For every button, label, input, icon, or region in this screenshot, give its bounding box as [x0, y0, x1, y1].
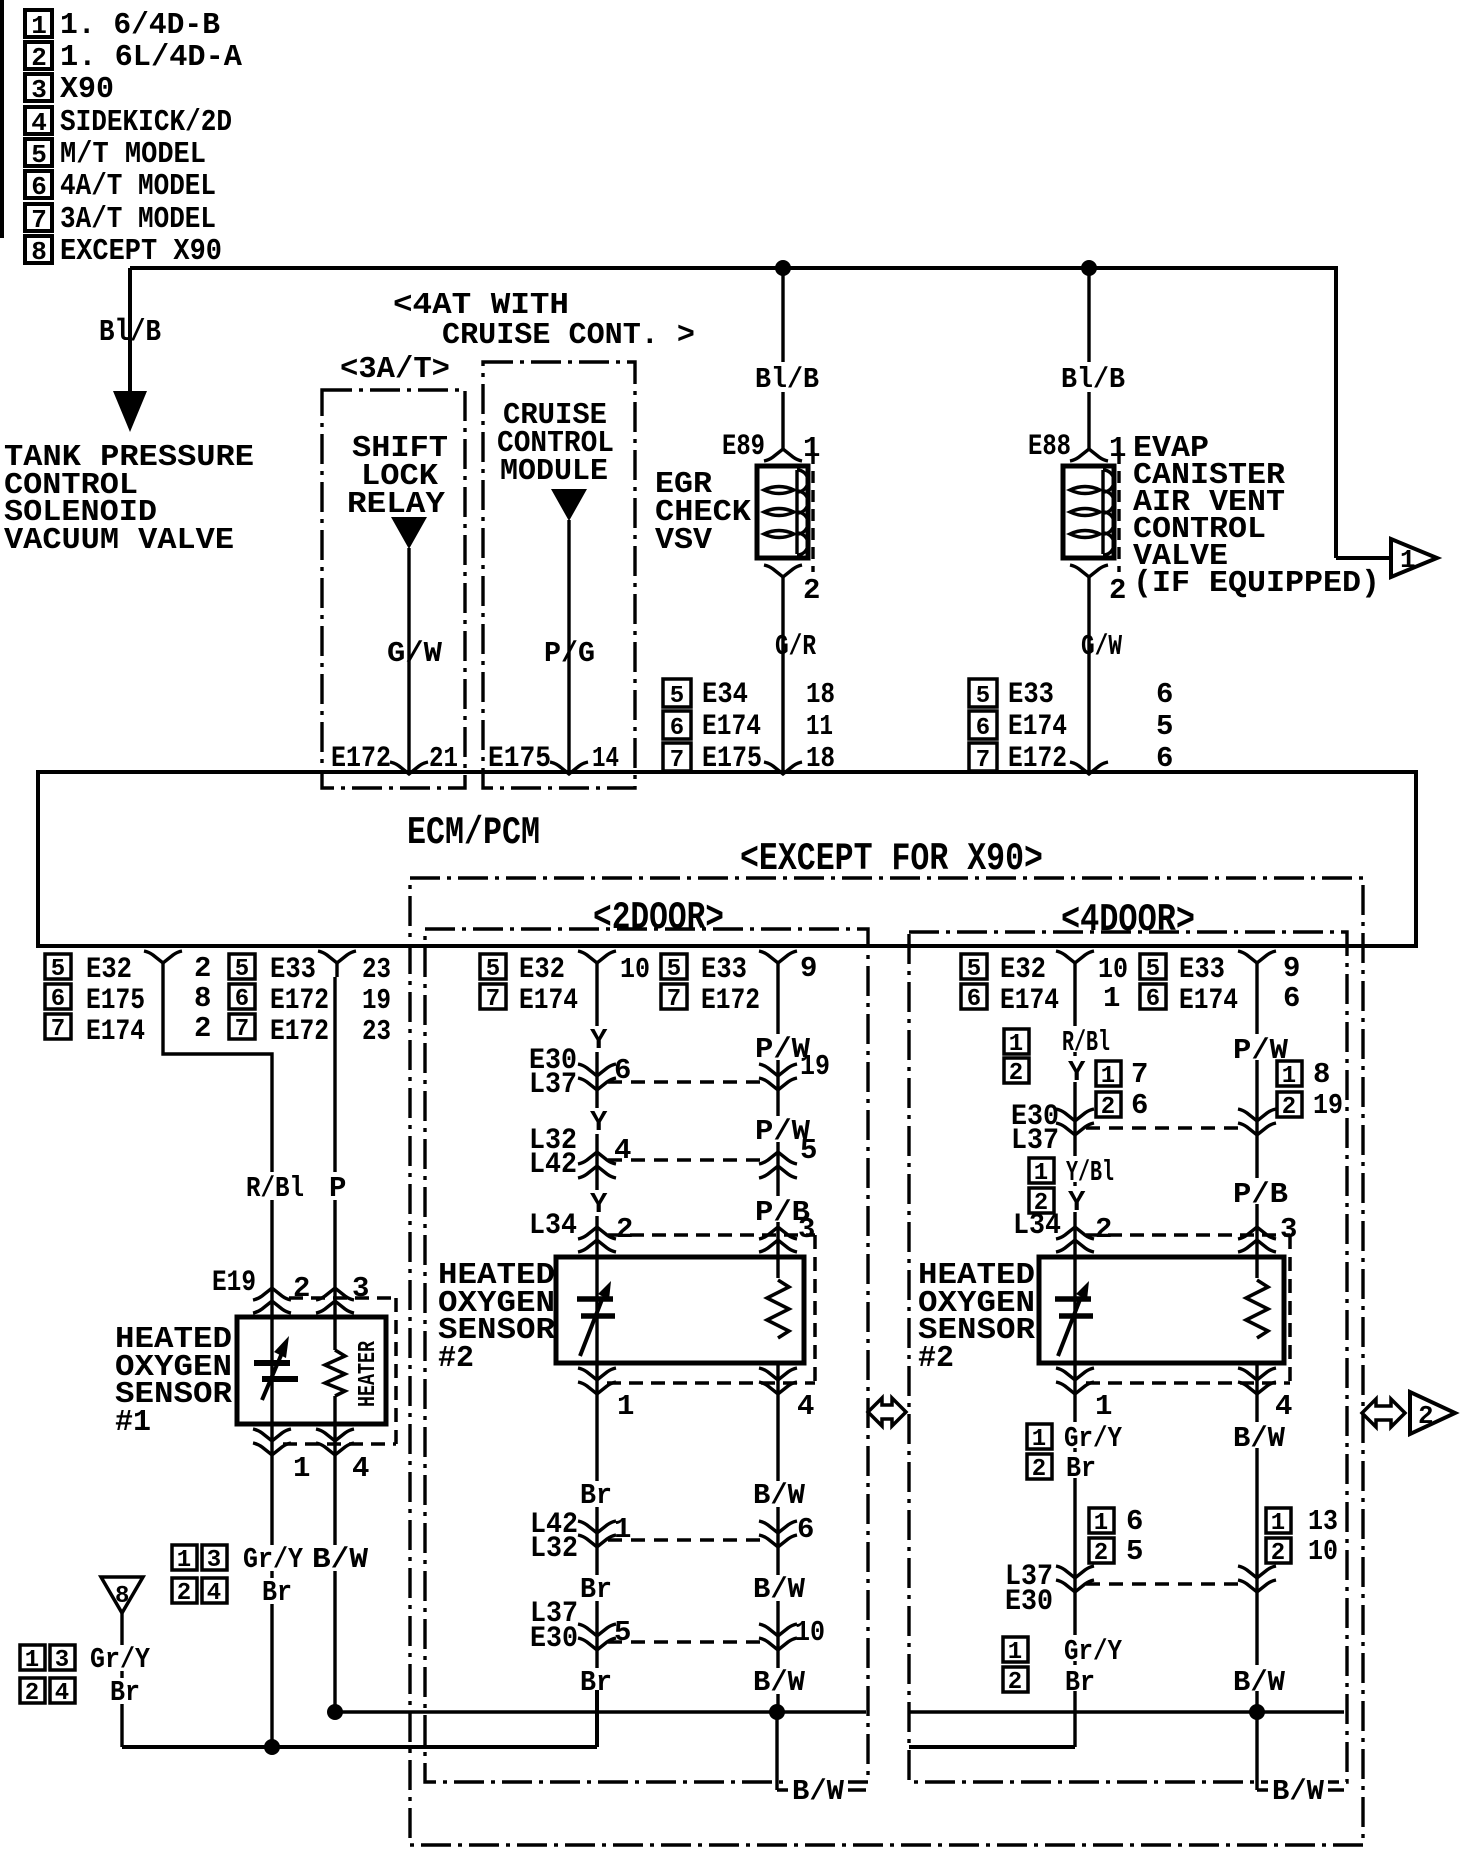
svg-text:B/W: B/W	[792, 1775, 845, 1808]
svg-text:4: 4	[31, 108, 47, 138]
svg-text:Gr/Y: Gr/Y	[243, 1543, 304, 1576]
svg-text:2: 2	[803, 574, 820, 607]
svg-text:L37: L37	[529, 1068, 577, 1102]
svg-text:19: 19	[800, 1050, 830, 1083]
svg-text:G/W: G/W	[387, 637, 443, 670]
svg-text:5: 5	[31, 140, 47, 170]
svg-text:Br: Br	[580, 1479, 612, 1512]
svg-text:E174: E174	[1000, 984, 1059, 1018]
svg-text:2: 2	[1095, 1213, 1112, 1246]
svg-text:2: 2	[31, 43, 47, 73]
svg-text:1: 1	[1009, 1031, 1023, 1058]
svg-text:E172: E172	[701, 984, 760, 1018]
svg-text:E89: E89	[722, 430, 765, 464]
svg-text:R/Bl: R/Bl	[246, 1172, 304, 1205]
svg-text:B/W: B/W	[753, 1479, 806, 1512]
svg-text:E33: E33	[1008, 678, 1054, 712]
svg-text:L42: L42	[529, 1148, 577, 1182]
svg-text:Y: Y	[1068, 1056, 1086, 1089]
svg-text:6: 6	[51, 986, 65, 1013]
svg-text:3: 3	[352, 1272, 369, 1305]
svg-text:VACUUM VALVE: VACUUM VALVE	[4, 523, 234, 558]
svg-text:Br: Br	[1065, 1666, 1095, 1699]
svg-text:Bl/B: Bl/B	[1061, 363, 1125, 396]
svg-text:5: 5	[800, 1134, 817, 1167]
svg-text:7: 7	[31, 205, 47, 235]
svg-text:2: 2	[1008, 1669, 1022, 1696]
svg-text:G/W: G/W	[1081, 630, 1122, 663]
svg-text:E33: E33	[701, 953, 747, 987]
svg-text:E32: E32	[1000, 953, 1046, 987]
svg-text:6: 6	[1146, 986, 1160, 1013]
svg-text:5: 5	[1156, 710, 1173, 743]
svg-text:1: 1	[1095, 1390, 1112, 1423]
svg-text:6: 6	[31, 172, 47, 202]
svg-text:2: 2	[194, 1012, 211, 1045]
svg-text:3A/T MODEL: 3A/T MODEL	[60, 202, 216, 237]
svg-text:E174: E174	[519, 984, 578, 1018]
svg-text:23: 23	[362, 1015, 391, 1048]
svg-text:1: 1	[31, 11, 47, 41]
svg-text:L32: L32	[530, 1532, 578, 1566]
svg-text:G/R: G/R	[775, 630, 816, 663]
svg-text:2: 2	[25, 1680, 39, 1707]
svg-text:Br: Br	[580, 1573, 612, 1606]
svg-text:2: 2	[1418, 1401, 1434, 1431]
svg-text:4A/T MODEL: 4A/T MODEL	[60, 169, 216, 204]
svg-text:2: 2	[1009, 1060, 1023, 1087]
svg-text:E30: E30	[530, 1622, 578, 1656]
svg-text:2: 2	[1032, 1456, 1046, 1483]
svg-text:3: 3	[31, 75, 47, 105]
svg-text:6: 6	[235, 986, 249, 1013]
svg-text:1. 6/4D-B: 1. 6/4D-B	[60, 8, 220, 43]
svg-text:7: 7	[1131, 1058, 1148, 1091]
svg-text:10: 10	[1308, 1535, 1338, 1568]
svg-text:2: 2	[177, 1580, 191, 1607]
svg-text:18: 18	[806, 678, 835, 711]
svg-text:<3A/T>: <3A/T>	[340, 352, 450, 387]
svg-text:E174: E174	[86, 1015, 145, 1049]
svg-text:6: 6	[967, 986, 981, 1013]
svg-text:L37: L37	[1011, 1124, 1059, 1158]
svg-text:1: 1	[1271, 1510, 1285, 1537]
svg-text:Y: Y	[590, 1106, 608, 1139]
svg-text:1: 1	[1034, 1160, 1048, 1187]
svg-text:<EXCEPT FOR X90>: <EXCEPT FOR X90>	[740, 837, 1043, 881]
svg-text:1: 1	[1101, 1063, 1115, 1090]
svg-text:L34: L34	[1013, 1209, 1061, 1243]
svg-text:P/G: P/G	[544, 637, 595, 670]
svg-text:4: 4	[614, 1134, 631, 1167]
svg-text:6: 6	[1126, 1505, 1143, 1538]
svg-text:6: 6	[1283, 982, 1300, 1015]
svg-text:Br: Br	[262, 1576, 292, 1609]
svg-text:B/W: B/W	[312, 1543, 369, 1576]
svg-text:E174: E174	[1008, 710, 1067, 744]
svg-text:6: 6	[976, 715, 990, 742]
svg-text:10: 10	[620, 953, 650, 986]
svg-text:E19: E19	[212, 1266, 256, 1300]
svg-text:E30: E30	[1005, 1585, 1053, 1619]
svg-text:E172: E172	[270, 1015, 329, 1049]
svg-text:7: 7	[51, 1016, 65, 1043]
svg-text:(IF EQUIPPED): (IF EQUIPPED)	[1133, 566, 1380, 601]
svg-text:8: 8	[1313, 1058, 1330, 1091]
svg-text:VSV: VSV	[655, 523, 712, 558]
svg-text:2: 2	[1271, 1540, 1285, 1567]
svg-text:1: 1	[1094, 1510, 1108, 1537]
svg-text:4: 4	[797, 1390, 814, 1423]
svg-text:5: 5	[670, 683, 684, 710]
svg-text:2: 2	[293, 1272, 310, 1305]
svg-text:11: 11	[806, 710, 833, 743]
svg-text:5: 5	[976, 683, 990, 710]
svg-text:<4DOOR>: <4DOOR>	[1061, 898, 1195, 942]
svg-text:HEATER: HEATER	[355, 1341, 382, 1407]
svg-text:5: 5	[667, 956, 681, 983]
svg-text:#2: #2	[438, 1341, 474, 1376]
svg-text:Bl/B: Bl/B	[755, 363, 819, 396]
svg-text:2: 2	[1282, 1094, 1296, 1121]
svg-text:8: 8	[115, 1583, 129, 1610]
svg-text:L34: L34	[529, 1209, 577, 1243]
svg-text:Y: Y	[1068, 1186, 1086, 1219]
svg-text:Y: Y	[590, 1188, 608, 1221]
svg-text:2: 2	[194, 952, 211, 985]
svg-text:B/W: B/W	[1233, 1666, 1286, 1699]
svg-text:B/W: B/W	[1233, 1422, 1286, 1455]
svg-text:Gr/Y: Gr/Y	[1064, 1422, 1122, 1455]
svg-text:8: 8	[31, 237, 47, 267]
svg-text:E174: E174	[702, 710, 761, 744]
svg-text:E88: E88	[1028, 430, 1071, 464]
svg-text:9: 9	[1283, 952, 1300, 985]
svg-text:E32: E32	[86, 953, 132, 987]
svg-text:3: 3	[55, 1647, 69, 1674]
svg-text:Y/Bl: Y/Bl	[1066, 1156, 1114, 1189]
svg-text:1: 1	[1400, 545, 1416, 575]
svg-text:2: 2	[1109, 574, 1126, 607]
svg-text:19: 19	[1313, 1089, 1343, 1122]
svg-text:4: 4	[352, 1452, 369, 1485]
svg-text:5: 5	[51, 956, 65, 983]
svg-text:E172: E172	[270, 984, 329, 1018]
svg-text:5: 5	[235, 956, 249, 983]
svg-text:1: 1	[1032, 1426, 1046, 1453]
svg-text:Br: Br	[110, 1676, 140, 1709]
svg-text:5: 5	[967, 956, 981, 983]
svg-text:6: 6	[797, 1513, 814, 1546]
svg-text:EXCEPT X90: EXCEPT X90	[60, 234, 222, 269]
svg-text:5: 5	[1126, 1535, 1143, 1568]
svg-text:1: 1	[1282, 1063, 1296, 1090]
svg-text:E33: E33	[270, 953, 316, 987]
svg-text:9: 9	[800, 952, 817, 985]
svg-text:5: 5	[1146, 956, 1160, 983]
svg-text:1: 1	[1008, 1639, 1022, 1666]
svg-text:10: 10	[795, 1616, 825, 1649]
svg-text:23: 23	[362, 953, 391, 986]
svg-text:B/W: B/W	[1272, 1775, 1325, 1808]
svg-text:8: 8	[194, 982, 211, 1015]
svg-text:7: 7	[976, 747, 990, 774]
svg-text:Br: Br	[1066, 1452, 1096, 1485]
svg-text:6: 6	[1156, 678, 1173, 711]
svg-text:Bl/B: Bl/B	[99, 315, 161, 350]
svg-text:#2: #2	[918, 1341, 954, 1376]
svg-text:1: 1	[617, 1390, 634, 1423]
svg-text:E34: E34	[702, 678, 748, 712]
svg-text:X90: X90	[60, 72, 114, 107]
svg-text:6: 6	[670, 715, 684, 742]
svg-text:2: 2	[1101, 1094, 1115, 1121]
svg-text:3: 3	[207, 1547, 221, 1574]
svg-text:P: P	[329, 1172, 346, 1205]
svg-text:5: 5	[486, 956, 500, 983]
svg-text:RELAY: RELAY	[347, 487, 445, 522]
svg-text:1: 1	[25, 1647, 39, 1674]
svg-text:4: 4	[55, 1680, 69, 1707]
svg-text:#1: #1	[115, 1405, 151, 1440]
svg-text:3: 3	[1280, 1213, 1297, 1246]
svg-text:M/T MODEL: M/T MODEL	[60, 137, 206, 172]
svg-text:P/B: P/B	[1233, 1178, 1288, 1211]
svg-text:E174: E174	[1179, 984, 1238, 1018]
svg-text:4: 4	[1275, 1390, 1292, 1423]
svg-text:SIDEKICK/2D: SIDEKICK/2D	[60, 105, 232, 140]
svg-text:B/W: B/W	[753, 1666, 806, 1699]
svg-text:7: 7	[235, 1016, 249, 1043]
svg-text:1: 1	[293, 1452, 310, 1485]
svg-text:19: 19	[362, 984, 391, 1017]
svg-text:<2DOOR>: <2DOOR>	[593, 896, 724, 940]
svg-text:E32: E32	[519, 953, 565, 987]
svg-text:1: 1	[1103, 982, 1120, 1015]
svg-text:7: 7	[486, 986, 500, 1013]
svg-text:Gr/Y: Gr/Y	[1064, 1635, 1122, 1668]
svg-text:5: 5	[614, 1616, 631, 1649]
svg-text:B/W: B/W	[753, 1573, 806, 1606]
svg-text:7: 7	[670, 747, 684, 774]
svg-text:E33: E33	[1179, 953, 1225, 987]
svg-text:ECM/PCM: ECM/PCM	[407, 811, 540, 855]
svg-text:1: 1	[177, 1547, 191, 1574]
svg-text:MODULE: MODULE	[500, 454, 608, 489]
svg-text:R/Bl: R/Bl	[1062, 1026, 1110, 1059]
svg-text:7: 7	[667, 986, 681, 1013]
svg-text:3: 3	[798, 1213, 815, 1246]
svg-text:Gr/Y: Gr/Y	[90, 1643, 151, 1676]
svg-text:6: 6	[1131, 1089, 1148, 1122]
svg-text:E175: E175	[86, 984, 145, 1018]
svg-text:2: 2	[1094, 1540, 1108, 1567]
svg-text:CRUISE CONT. >: CRUISE CONT. >	[442, 318, 695, 353]
svg-text:13: 13	[1308, 1505, 1338, 1538]
svg-text:Y: Y	[590, 1024, 608, 1057]
svg-text:4: 4	[207, 1580, 221, 1607]
svg-text:2: 2	[616, 1213, 633, 1246]
svg-text:1. 6L/4D-A: 1. 6L/4D-A	[60, 40, 242, 75]
